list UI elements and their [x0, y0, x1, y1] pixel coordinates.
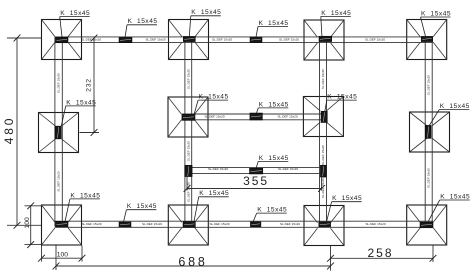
- svg-text:K 15x45: K 15x45: [70, 192, 100, 199]
- label K 15x45 for C6 with leader: [194, 94, 229, 115]
- column C9 at F9 15x45 (hatched block): [56, 221, 69, 227]
- footing F9 bottom row (pad with diagonals): [42, 205, 82, 245]
- svg-text:SL.DEF 15x20: SL.DEF 15x20: [321, 69, 325, 89]
- svg-text:SL.DEF 15x20: SL.DEF 15x20: [145, 38, 165, 42]
- svg-text:SL.DEF 15x20: SL.DEF 15x20: [365, 38, 385, 42]
- label K 15x45 for C7 with leader: [325, 94, 358, 112]
- svg-text:232: 232: [86, 78, 93, 92]
- label K 15x45 for C9 with leader: [65, 192, 100, 221]
- svg-text:SL.DEF 15x20: SL.DEF 15x20: [365, 222, 385, 226]
- svg-text:SL.DEF 15x20: SL.DEF 15x20: [186, 69, 190, 89]
- svg-text:SL.DEF 15x20: SL.DEF 15x20: [278, 167, 298, 171]
- svg-text:K 15x45: K 15x45: [440, 103, 470, 110]
- footing F4 top row (pad with diagonals): [407, 20, 447, 60]
- svg-text:K 15x45: K 15x45: [199, 190, 229, 197]
- label K 15x45 for C20 with leader: [253, 207, 287, 223]
- svg-text:SL.DEF 15x20: SL.DEF 15x20: [209, 222, 229, 226]
- label K 15x45 for C10 with leader: [194, 190, 229, 221]
- footing F12 bottom row (pad with diagonals): [407, 205, 447, 245]
- footing F2 top row (pad with diagonals): [169, 20, 209, 60]
- beam row B middle tie beam: [182, 114, 327, 120]
- svg-text:SL.DEF 15x20: SL.DEF 15x20: [186, 141, 190, 161]
- svg-text:SL.DEF 15x20: SL.DEF 15x20: [208, 167, 228, 171]
- footing F5 mid-left row (pad with diagonals): [39, 113, 79, 153]
- svg-text:K 15x45: K 15x45: [321, 10, 351, 17]
- dimension 258 (bottom right span): [327, 246, 436, 263]
- svg-text:SL.DEF 15x20: SL.DEF 15x20: [427, 168, 431, 188]
- svg-text:100: 100: [57, 252, 69, 259]
- svg-text:SL.DEF 15x20: SL.DEF 15x20: [57, 171, 61, 191]
- label K 15x45 for C1 with leader: [60, 10, 91, 37]
- column C5 at F5 15x45 (hatched block): [55, 126, 61, 139]
- footing F10 bottom row (pad with diagonals): [168, 205, 208, 245]
- dimension 232 (row A to mid-left footing): [80, 35, 100, 136]
- svg-text:SL.DEF 15x20: SL.DEF 15x20: [427, 75, 431, 95]
- column C15 mid-span row B 15x45 (hatched block): [250, 113, 263, 120]
- column C7 at F7 15x45 (hatched block): [321, 111, 327, 122]
- footing F6 middle row (pad with diagonals): [168, 97, 208, 137]
- svg-text:SL.DEF 15x20: SL.DEF 15x20: [81, 222, 101, 226]
- svg-text:K 15x45: K 15x45: [440, 193, 470, 200]
- column C12 at F12 15x45 (hatched block): [420, 222, 433, 228]
- column C2 at F2 15x45 (hatched block): [183, 36, 195, 41]
- beam row C tie beam: [186, 168, 322, 174]
- label K 15x45 for C18 with leader: [256, 155, 289, 169]
- dimension 480 (left overall height): [2, 35, 41, 229]
- column C10 at F10 15x45 (hatched block): [183, 222, 195, 228]
- svg-text:100: 100: [24, 217, 31, 229]
- svg-text:SL.DEF 15x20: SL.DEF 15x20: [57, 73, 61, 93]
- column C4 at F4 15x45 (hatched block): [421, 36, 433, 41]
- label K 15x45 for C8 with leader: [429, 103, 470, 126]
- svg-text:K 15x45: K 15x45: [128, 18, 158, 25]
- svg-text:480: 480: [2, 116, 16, 144]
- svg-text:355: 355: [243, 174, 269, 188]
- svg-text:SL.DEF 15x20: SL.DEF 15x20: [280, 222, 300, 226]
- svg-text:K 15x45: K 15x45: [259, 155, 289, 162]
- svg-text:SL.DEF 15x20: SL.DEF 15x20: [212, 38, 232, 42]
- svg-text:K 15x45: K 15x45: [327, 94, 357, 101]
- label K 15x45 for C14 with leader: [256, 20, 289, 37]
- svg-text:SL.DEF 15x20: SL.DEF 15x20: [279, 38, 299, 42]
- label K 15x45 for C15 with leader: [257, 101, 289, 113]
- footing F11 bottom row (pad with diagonals): [304, 206, 344, 246]
- label K 15x45 for C19 with leader: [124, 203, 157, 222]
- beam column line 3 (vertical): [320, 37, 327, 227]
- label K 15x45 for C12 with leader: [428, 193, 470, 221]
- svg-text:258: 258: [367, 246, 393, 260]
- column C16 row C left 15x45 (hatched block): [185, 165, 192, 176]
- svg-text:K 15x45: K 15x45: [127, 203, 157, 210]
- column C19 mid-span row D 15x45 (hatched block): [119, 222, 131, 227]
- svg-text:K 15x45: K 15x45: [60, 10, 90, 17]
- svg-text:K 15x45: K 15x45: [259, 20, 289, 27]
- dimension 355 (row C span): [184, 174, 325, 192]
- dimension 688 (bottom left span): [53, 246, 334, 271]
- footing F8 mid-right row (pad with diagonals): [410, 112, 450, 152]
- dimension 100 vertical (bottom-left footing height): [24, 202, 41, 248]
- column C18 mid-span row C 15x45 (hatched block): [250, 168, 263, 174]
- svg-text:K 15x45: K 15x45: [199, 94, 229, 101]
- label K 15x45 for C13 with leader: [125, 18, 158, 37]
- beam column line 4 (vertical): [425, 37, 432, 227]
- dimension 100 horizontal (bottom-left footing width): [38, 246, 85, 262]
- svg-text:K 15x45: K 15x45: [257, 207, 287, 214]
- svg-text:K 15x45: K 15x45: [191, 9, 221, 16]
- svg-text:K 15x45: K 15x45: [421, 10, 451, 17]
- column C6 at F6 15x45 (hatched block): [182, 115, 195, 121]
- column C11 at F11 15x45 (hatched block): [319, 222, 331, 227]
- label K 15x45 for C3 with leader: [321, 10, 352, 38]
- svg-text:SL.DEF 15x20: SL.DEF 15x20: [321, 145, 325, 165]
- label K 15x45 for C5 with leader: [61, 99, 96, 126]
- column C3 at F3 15x45 (hatched block): [319, 36, 332, 41]
- footing F3 top row (pad with diagonals): [304, 20, 344, 60]
- svg-text:K 15x45: K 15x45: [332, 195, 362, 202]
- label K 15x45 for C4 with leader: [421, 10, 452, 36]
- column C20 mid-span row D 15x45 (hatched block): [250, 222, 261, 227]
- svg-text:SL.DEF 15x20: SL.DEF 15x20: [204, 115, 224, 119]
- column C8 at F8 15x45 (hatched block): [425, 125, 431, 138]
- svg-text:SL.DEF 15x20: SL.DEF 15x20: [277, 115, 297, 119]
- footing F1 top row (pad with diagonals): [42, 20, 82, 60]
- beam column line 1 (vertical): [55, 37, 62, 227]
- label K 15x45 for C11 with leader: [327, 195, 363, 222]
- svg-text:K 15x45: K 15x45: [66, 99, 96, 106]
- svg-text:688: 688: [178, 255, 207, 269]
- label K 15x45 for C2 with leader: [189, 9, 221, 36]
- column C13 mid-span row A 15x45 (hatched block): [119, 37, 132, 42]
- beam column line 2 (vertical): [185, 37, 192, 227]
- footing F7 middle row (pad with diagonals): [303, 97, 343, 137]
- svg-text:SL.DEF 15x20: SL.DEF 15x20: [142, 222, 162, 226]
- column C17 row C right 15x45 (hatched block): [320, 165, 326, 177]
- beam row A (top tie beam): [55, 37, 433, 43]
- column C1 at F1 15x45 (hatched block): [56, 37, 69, 43]
- svg-text:K 15x45: K 15x45: [259, 101, 289, 108]
- column C14 mid-span row A 15x45 (hatched block): [250, 37, 262, 43]
- beam row D (bottom tie beam): [55, 221, 433, 227]
